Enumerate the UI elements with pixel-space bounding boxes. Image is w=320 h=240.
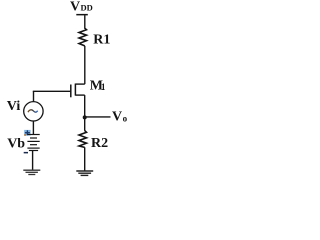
wire R1 bottom to M1 drain [84, 46, 86, 84]
label M1 [90, 78, 106, 93]
plus sign highlight [24, 130, 30, 136]
svg-text:DD: DD [81, 2, 93, 12]
svg-text:Vi: Vi [7, 99, 21, 114]
svg-text:V: V [112, 110, 122, 125]
VDD rail bar [76, 14, 88, 16]
source step [75, 94, 84, 96]
AC source tilde [28, 110, 38, 112]
wire battery to ground [32, 151, 34, 171]
minus sign [24, 152, 28, 154]
drain step [75, 83, 84, 85]
battery Vb [27, 135, 39, 151]
AC source Vi circle [24, 102, 43, 121]
resistor R1 [79, 28, 87, 46]
svg-text:R2: R2 [91, 136, 108, 151]
wire VDD bar to R1 top [84, 15, 86, 29]
wire gate lead [33, 90, 72, 92]
wire gate corner down to source Vi [33, 91, 35, 102]
label Vo [112, 110, 128, 125]
label VDD [70, 0, 93, 15]
ground under R2 [76, 171, 93, 175]
transistor M1 [71, 84, 85, 98]
wire Vi circle to battery [32, 121, 34, 134]
wire node to Vo [85, 116, 111, 118]
svg-text:o: o [123, 113, 128, 123]
svg-text:Vb: Vb [7, 137, 25, 152]
wire R2 bottom to ground [84, 147, 86, 170]
channel bar [74, 84, 76, 96]
svg-text:V: V [70, 0, 80, 15]
gate bar [70, 85, 72, 98]
resistor R2 [79, 131, 87, 148]
svg-text:1: 1 [101, 82, 106, 92]
svg-text:R1: R1 [93, 33, 110, 48]
node junction dot [83, 115, 87, 119]
wire M1 source down through node to R2 [84, 95, 86, 131]
ground under battery [23, 170, 40, 174]
